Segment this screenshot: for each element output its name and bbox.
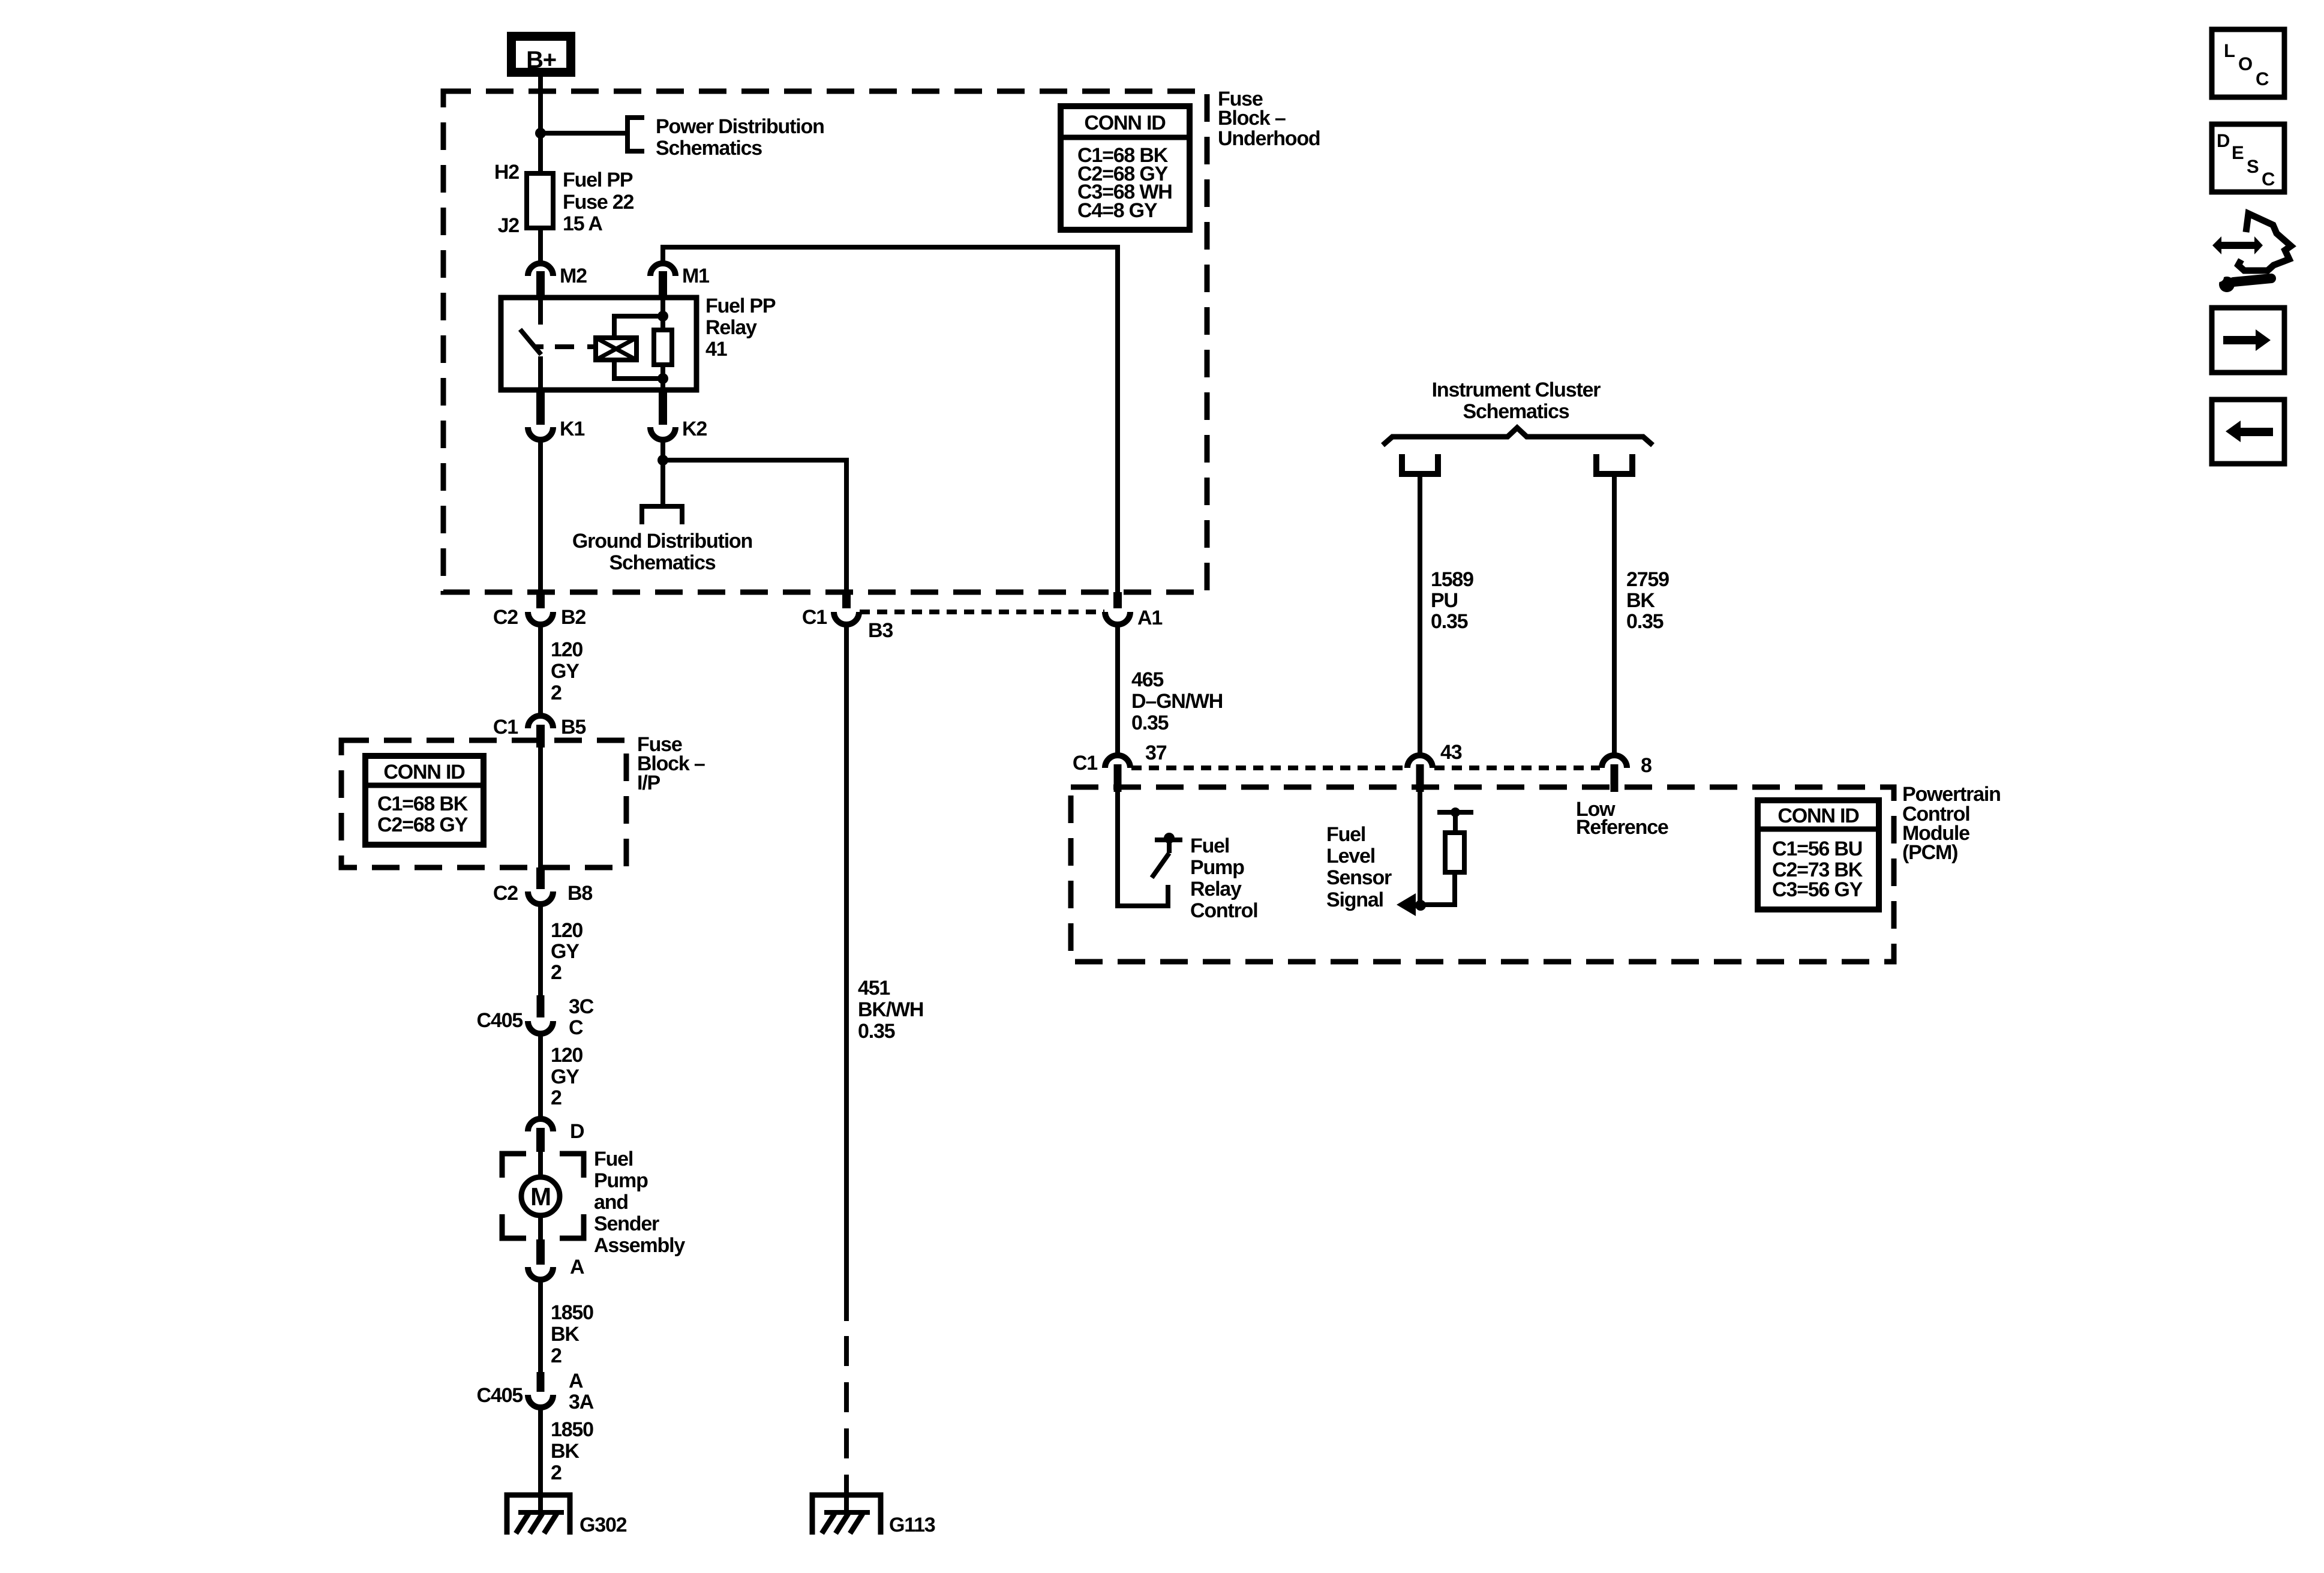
svg-text:Assembly: Assembly xyxy=(594,1234,685,1257)
relay linkage dashed line xyxy=(555,344,594,349)
svg-text:Sensor: Sensor xyxy=(1326,866,1392,889)
svg-text:A: A xyxy=(570,1256,584,1278)
svg-text:O: O xyxy=(2238,53,2252,74)
svg-text:K1: K1 xyxy=(560,418,584,440)
svg-text:CONN ID: CONN ID xyxy=(1084,112,1166,134)
svg-text:1850: 1850 xyxy=(551,1418,593,1441)
svg-text:2: 2 xyxy=(551,1344,562,1367)
svg-text:M: M xyxy=(530,1182,551,1211)
icon vehicle with wrench xyxy=(2212,236,2263,254)
connector C405 A/3A xyxy=(537,1372,545,1392)
wire K2 branch to B3 xyxy=(663,460,846,592)
svg-text:Control: Control xyxy=(1190,899,1257,922)
svg-text:Fuel: Fuel xyxy=(594,1148,633,1170)
svg-text:0.35: 0.35 xyxy=(1626,610,1664,633)
svg-text:43: 43 xyxy=(1440,741,1462,764)
node sensor signal junction xyxy=(1415,900,1426,911)
connector C2/B2 xyxy=(536,592,545,608)
svg-text:Fuel PP: Fuel PP xyxy=(563,169,633,191)
wire 37 to switch xyxy=(1118,792,1168,906)
relay coil bottom lead xyxy=(614,360,663,379)
relay Fuel PP Relay 41 box xyxy=(501,298,696,390)
svg-text:I/P: I/P xyxy=(637,772,660,794)
bracket: power distribution schematics reference xyxy=(627,118,644,151)
connector pin M1 xyxy=(650,263,675,276)
relay coil top lead xyxy=(614,316,663,338)
dotted line 43 to 8 xyxy=(1434,766,1600,770)
svg-text:C2: C2 xyxy=(493,882,518,905)
dotted line B3 to A1 xyxy=(860,610,1104,614)
svg-text:C2: C2 xyxy=(493,606,518,629)
svg-text:C4=8 GY: C4=8 GY xyxy=(1077,199,1158,222)
svg-text:CONN ID: CONN ID xyxy=(383,761,465,784)
dotted line 37 to 43 xyxy=(1131,766,1406,770)
svg-text:Fuel: Fuel xyxy=(1326,823,1365,846)
svg-text:1589: 1589 xyxy=(1431,568,1473,591)
svg-text:A: A xyxy=(569,1370,583,1392)
wire D to motor xyxy=(538,1152,543,1178)
svg-text:0.35: 0.35 xyxy=(1431,610,1468,633)
wire B2 to B5 xyxy=(538,625,543,716)
node K2 branch junction xyxy=(657,455,668,466)
relay switch fixed lead xyxy=(538,298,543,325)
wire K1 down to B2 xyxy=(538,440,543,592)
connector pin K2 xyxy=(659,391,667,425)
battery feed symbol B+ xyxy=(512,37,571,73)
svg-text:2: 2 xyxy=(551,1461,562,1484)
svg-text:120: 120 xyxy=(551,638,582,661)
connector 43 xyxy=(1407,755,1433,768)
connector C2/B8 xyxy=(536,867,545,889)
svg-text:Schematics: Schematics xyxy=(1463,400,1569,423)
svg-text:C1: C1 xyxy=(493,716,518,739)
connector C405 3C/C xyxy=(537,995,545,1017)
svg-text:B3: B3 xyxy=(868,619,893,642)
svg-text:2: 2 xyxy=(551,682,562,704)
svg-text:Pump: Pump xyxy=(594,1169,648,1192)
svg-text:D: D xyxy=(2217,130,2230,151)
powertrain control module dashed box xyxy=(1071,787,1894,962)
svg-text:BK: BK xyxy=(1626,589,1655,612)
svg-text:BK: BK xyxy=(551,1323,580,1346)
wire IC right to 8 (2759 BK) xyxy=(1612,474,1617,754)
relay switch blade xyxy=(520,329,541,355)
CONN ID table (I/P) xyxy=(365,756,484,845)
connector C1/37 xyxy=(1105,755,1130,768)
svg-text:GY: GY xyxy=(551,660,580,683)
svg-text:8: 8 xyxy=(1641,754,1652,777)
terminal (instrument cluster left) xyxy=(1402,454,1438,474)
connector pin D xyxy=(528,1119,553,1131)
fuse Fuel PP Fuse 22 15A xyxy=(527,173,553,228)
svg-text:E: E xyxy=(2232,142,2244,163)
wire A to C405 xyxy=(538,1280,543,1372)
wire through I/P block xyxy=(538,748,543,867)
svg-text:15 A: 15 A xyxy=(563,212,602,235)
relay switch contact bar xyxy=(533,344,544,349)
svg-text:3C: 3C xyxy=(569,995,594,1018)
svg-text:(PCM): (PCM) xyxy=(1902,841,1957,864)
svg-text:Block –: Block – xyxy=(1218,107,1286,130)
svg-text:CONN ID: CONN ID xyxy=(1777,804,1859,827)
svg-text:C: C xyxy=(569,1016,583,1039)
wire B+ to fuse xyxy=(538,77,543,173)
resistor fuel level sensor xyxy=(1452,872,1457,905)
icon button LOC xyxy=(2212,29,2284,97)
svg-text:J2: J2 xyxy=(498,214,520,237)
svg-text:and: and xyxy=(594,1191,628,1214)
wire motor to A xyxy=(538,1215,543,1239)
svg-text:D: D xyxy=(570,1120,584,1143)
svg-text:C2=68 GY: C2=68 GY xyxy=(377,813,469,836)
svg-text:B2: B2 xyxy=(561,606,585,629)
svg-text:Instrument Cluster: Instrument Cluster xyxy=(1432,379,1601,401)
wire A1 to 37 (465 D-GN/WH) xyxy=(1115,625,1120,754)
arrow fuel level sensor signal xyxy=(1397,893,1416,916)
svg-text:M2: M2 xyxy=(560,265,587,287)
fuse block I/P dashed box xyxy=(341,740,626,867)
svg-text:Fuel PP: Fuel PP xyxy=(705,295,776,317)
wire tap to power distribution bracket xyxy=(541,131,627,136)
CONN ID table (underhood) xyxy=(1061,106,1190,230)
svg-text:C1=68 BK: C1=68 BK xyxy=(377,792,469,815)
icon button DESC xyxy=(2212,124,2284,192)
svg-text:1850: 1850 xyxy=(551,1301,593,1324)
node coil bottom junction xyxy=(657,373,668,384)
svg-text:3A: 3A xyxy=(569,1391,594,1413)
motor M fuel pump xyxy=(521,1177,560,1215)
svg-text:41: 41 xyxy=(705,338,727,361)
connector 8 xyxy=(1602,755,1627,768)
wire B8 to C405 xyxy=(538,904,543,995)
connector pin A xyxy=(536,1239,545,1265)
svg-text:K2: K2 xyxy=(682,418,707,440)
relay internal resistor xyxy=(654,330,672,365)
svg-text:M1: M1 xyxy=(682,265,709,287)
connector C1/B5 xyxy=(528,716,553,728)
svg-text:B5: B5 xyxy=(561,716,585,739)
svg-text:Underhood: Underhood xyxy=(1218,127,1320,150)
icon button back arrow xyxy=(2212,400,2284,464)
svg-text:Ground Distribution: Ground Distribution xyxy=(572,530,752,553)
relay switch lower lead xyxy=(538,356,543,390)
ground G113 xyxy=(812,1495,881,1535)
svg-text:451: 451 xyxy=(858,977,890,999)
connector pin K1 xyxy=(536,391,545,425)
svg-text:C1: C1 xyxy=(802,606,827,629)
svg-text:PU: PU xyxy=(1431,589,1458,612)
svg-text:2: 2 xyxy=(551,1086,562,1109)
relay coil box with X xyxy=(596,338,636,360)
svg-text:C: C xyxy=(2262,169,2275,190)
svg-text:Fuse 22: Fuse 22 xyxy=(563,191,634,214)
switch fuel pump relay control xyxy=(1155,837,1182,842)
svg-text:Schematics: Schematics xyxy=(609,551,716,574)
wire M1 to A1 (via top elbow) xyxy=(663,247,1118,592)
svg-text:120: 120 xyxy=(551,1044,582,1067)
fuse block underhood dashed box xyxy=(443,91,1207,592)
ground G302 xyxy=(507,1495,570,1535)
svg-text:C: C xyxy=(2256,68,2269,89)
svg-text:Schematics: Schematics xyxy=(656,137,762,160)
node: tap junction xyxy=(535,128,546,139)
svg-text:L: L xyxy=(2224,40,2235,61)
svg-text:G113: G113 xyxy=(889,1514,935,1536)
wire 43 to sensor junction xyxy=(1418,792,1422,905)
wire resistor to K2 pin xyxy=(660,365,665,390)
svg-text:BK/WH: BK/WH xyxy=(858,998,923,1021)
wire junction to resistor xyxy=(1411,902,1457,907)
svg-text:Reference: Reference xyxy=(1576,816,1668,839)
svg-text:Relay: Relay xyxy=(705,316,757,339)
wire IC left to 43 (1589 PU) xyxy=(1418,474,1422,754)
connector C1/B3 xyxy=(842,592,851,608)
svg-text:H2: H2 xyxy=(494,161,519,184)
svg-text:0.35: 0.35 xyxy=(858,1020,895,1043)
svg-text:Power Distribution: Power Distribution xyxy=(656,115,824,138)
brace instrument cluster xyxy=(1383,428,1653,445)
svg-text:C1: C1 xyxy=(1073,752,1097,775)
wire C405 to D xyxy=(538,1034,543,1118)
svg-text:Sender: Sender xyxy=(594,1212,659,1235)
wire K2 down to ground distribution xyxy=(660,440,665,506)
svg-text:D–GN/WH: D–GN/WH xyxy=(1131,690,1223,713)
dashed wire to G113 xyxy=(844,1321,849,1488)
node resistor top junction xyxy=(1451,807,1460,817)
wire B3 down (451 BK/WH) xyxy=(844,625,849,1321)
svg-text:Pump: Pump xyxy=(1190,856,1244,879)
fuel pump assembly dashed box (corner brackets) xyxy=(502,1154,526,1178)
svg-text:BK: BK xyxy=(551,1440,580,1463)
svg-text:C3=56 GY: C3=56 GY xyxy=(1772,878,1863,901)
connector A1 xyxy=(1113,592,1122,608)
wire M1 pin to resistor xyxy=(660,298,665,330)
wire fuse to relay pin M2 xyxy=(538,228,543,265)
terminal (instrument cluster right) xyxy=(1596,454,1632,474)
svg-text:120: 120 xyxy=(551,919,582,942)
bracket: ground distribution schematics reference xyxy=(642,506,682,524)
svg-text:A1: A1 xyxy=(1137,607,1162,629)
svg-text:2: 2 xyxy=(551,961,562,984)
svg-text:37: 37 xyxy=(1145,742,1167,764)
svg-text:465: 465 xyxy=(1131,668,1163,691)
svg-text:0.35: 0.35 xyxy=(1131,712,1169,734)
svg-text:2759: 2759 xyxy=(1626,568,1669,591)
svg-text:Signal: Signal xyxy=(1326,888,1383,911)
svg-text:G302: G302 xyxy=(580,1514,627,1536)
icon button forward arrow xyxy=(2212,308,2284,373)
CONN ID table (PCM) xyxy=(1758,800,1879,909)
connector pin M2 xyxy=(528,263,553,276)
svg-text:S: S xyxy=(2247,156,2259,177)
svg-text:Relay: Relay xyxy=(1190,878,1242,900)
svg-text:Level: Level xyxy=(1326,845,1375,867)
svg-text:B8: B8 xyxy=(568,882,592,905)
svg-text:C1=56 BU: C1=56 BU xyxy=(1772,837,1862,860)
svg-text:Fuel: Fuel xyxy=(1190,834,1229,857)
svg-text:GY: GY xyxy=(551,1065,580,1088)
svg-text:C405: C405 xyxy=(477,1384,523,1407)
wire C405 to G302 xyxy=(538,1407,543,1512)
svg-text:B+: B+ xyxy=(526,47,556,73)
svg-text:C405: C405 xyxy=(477,1009,523,1032)
node coil top junction xyxy=(657,311,668,322)
svg-text:GY: GY xyxy=(551,940,580,963)
T-bar internal PCM connection xyxy=(1437,810,1473,815)
